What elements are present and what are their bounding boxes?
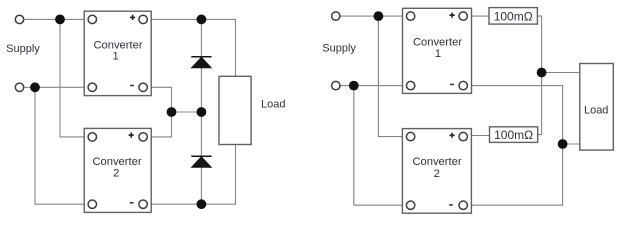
- label - converter1 (right): [450, 83, 454, 85]
- load box (left): [219, 76, 251, 144]
- supply terminal - (right): [332, 81, 340, 89]
- converter 1 box (left): [84, 11, 151, 95]
- pin converter2 +in (right): [406, 132, 414, 140]
- supply terminal + (left): [15, 15, 23, 23]
- junction minus node (right): [558, 139, 568, 149]
- svg-text:Load: Load: [584, 105, 608, 117]
- wire converter1 +out to resistor R1: [463, 15, 489, 17]
- label + converter1 (left): [130, 15, 135, 20]
- svg-text:Load: Load: [261, 99, 285, 111]
- svg-text:Converter: Converter: [92, 156, 141, 168]
- wire supply- branch down to converter2 -in (right): [354, 86, 411, 206]
- pin converter1 +in: [88, 15, 96, 23]
- svg-text:2: 2: [434, 168, 440, 180]
- converter 2 box (left): [84, 128, 151, 212]
- wire converter1 -out down to mid node: [143, 87, 171, 112]
- pin converter1 -out (right): [459, 81, 467, 89]
- label + converter1 (right): [450, 13, 455, 18]
- supply terminal - (left): [15, 83, 23, 91]
- wire diode chain vertical: [200, 19, 202, 204]
- junction diode chain top: [197, 15, 207, 25]
- pin converter1 -in: [88, 83, 96, 91]
- label - converter2 (left): [130, 202, 134, 204]
- pin converter2 -in: [88, 200, 96, 208]
- pin converter2 +out: [139, 133, 147, 141]
- svg-text:100mΩ: 100mΩ: [494, 10, 533, 24]
- wire minus node to load: [563, 143, 580, 145]
- pin converter1 +out (right): [459, 12, 467, 20]
- junction mid node left: [167, 107, 177, 117]
- pin converter1 -out: [139, 83, 147, 91]
- junction top supply node (right): [374, 11, 384, 21]
- resistor R1 100mOhm box: [489, 8, 537, 25]
- wire supply+ to converter1 +in: [20, 18, 93, 20]
- pin converter2 -out: [139, 200, 147, 208]
- supply terminal + (right): [332, 12, 340, 20]
- svg-text:Supply: Supply: [6, 43, 40, 55]
- wire minus rail converter1 to converter2: [463, 86, 562, 206]
- converter 1 box (right): [403, 8, 472, 93]
- junction diode chain bottom: [197, 199, 207, 209]
- svg-text:1: 1: [112, 50, 118, 62]
- svg-text:Converter: Converter: [412, 156, 461, 168]
- wire plus rail R1 to R2: [537, 16, 541, 135]
- wire plus node to load: [542, 72, 580, 74]
- label + converter2 (left): [129, 133, 134, 138]
- wire converter2 -out to load bottom: [143, 145, 235, 205]
- resistor R2 100mOhm box: [490, 127, 538, 143]
- pin converter2 +in: [88, 133, 96, 141]
- svg-text:Supply: Supply: [322, 43, 356, 55]
- junction bottom supply node (right): [349, 81, 359, 91]
- wire converter2 +out up to mid node: [143, 112, 171, 137]
- wire supply+ branch down to converter2 +in (right): [378, 16, 410, 137]
- svg-text:Converter: Converter: [413, 36, 462, 48]
- junction mid node on diode chain: [197, 107, 207, 117]
- wire supply- to converter1 -in: [20, 86, 93, 88]
- wire supply- to converter1 -in (right): [336, 85, 411, 87]
- junction bottom supply node: [30, 82, 40, 92]
- label - converter2 (right): [449, 204, 453, 206]
- label - converter1 (left): [130, 85, 134, 87]
- svg-text:2: 2: [113, 167, 119, 179]
- converter 2 box (right): [402, 129, 471, 214]
- diode D1 bypass: [191, 57, 211, 68]
- diode D2 bypass: [191, 156, 211, 167]
- pin converter1 -in (right): [406, 81, 414, 89]
- junction plus node (right): [537, 68, 547, 78]
- svg-text:100mΩ: 100mΩ: [494, 128, 533, 142]
- pin converter2 -in (right): [406, 201, 414, 209]
- wire converter2 +out to resistor R2: [463, 135, 489, 137]
- wire supply+ branch down to converter2 +in: [60, 19, 92, 136]
- pin converter2 +out (right): [459, 132, 467, 140]
- wire supply+ to converter1 +in (right): [336, 15, 411, 17]
- wire converter1 +out to load top: [143, 19, 235, 76]
- pin converter2 -out (right): [459, 201, 467, 209]
- junction top supply node: [55, 15, 65, 25]
- pin converter1 +in (right): [406, 12, 414, 20]
- pin converter1 +out: [139, 15, 147, 23]
- wire supply- branch down to converter2 -in: [35, 87, 92, 204]
- svg-text:1: 1: [435, 48, 441, 60]
- wire mid node to diode chain: [172, 111, 202, 113]
- label + converter2 (right): [450, 133, 455, 138]
- load box (right): [580, 64, 614, 151]
